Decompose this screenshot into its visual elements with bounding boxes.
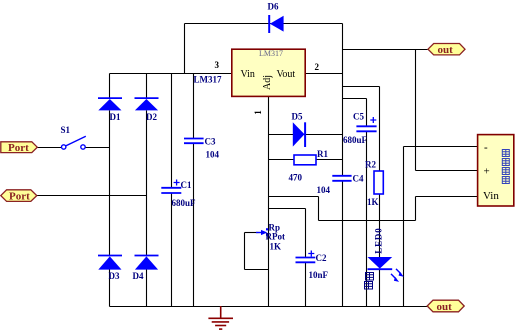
wire C1 vertical top — [171, 74, 173, 188]
wire vertical R2 top — [379, 87, 381, 172]
svg-text:+: + — [484, 166, 490, 178]
svg-text:470: 470 — [289, 172, 303, 182]
diode D5 — [293, 122, 305, 147]
svg-text:1K: 1K — [367, 197, 379, 207]
svg-text:680uF: 680uF — [172, 198, 197, 208]
svg-text:3: 3 — [215, 60, 220, 70]
value label below LED — [365, 273, 374, 290]
potentiometer Rp wiper arrow — [256, 228, 268, 236]
wire bridge right vertical x=146.3 — [146, 74, 148, 99]
svg-text:C3: C3 — [205, 137, 216, 147]
svg-text:D2: D2 — [146, 112, 157, 122]
wire bridge right vertical lower — [146, 270, 148, 307]
wire R1 branch y=160 — [269, 159, 343, 161]
capacitor C1 — [161, 180, 181, 194]
svg-text:Port: Port — [8, 142, 29, 154]
svg-text:out: out — [438, 44, 454, 56]
wire vertical C5 top — [366, 99, 368, 127]
diode D1 — [98, 98, 122, 110]
svg-text:Adj: Adj — [262, 75, 273, 90]
wire vertical R2 bottom to LED anode — [379, 195, 381, 258]
wire potentiometer wiper loop horizontal — [245, 232, 259, 234]
capacitor C3 — [184, 139, 204, 144]
svg-text:Vin: Vin — [483, 190, 499, 202]
wire horizontal y=220.6 — [319, 220, 416, 222]
switch S1 — [62, 136, 86, 149]
svg-text:LM317: LM317 — [194, 75, 222, 85]
svg-text:2: 2 — [315, 62, 320, 72]
svg-text:1: 1 — [253, 110, 263, 115]
svg-text:Port: Port — [9, 190, 30, 202]
wire Adj vertical x=268.8 — [268, 97, 270, 307]
port Port1 — [1, 142, 38, 154]
wire Vin terminal of display module — [416, 196, 478, 198]
svg-text:C2: C2 — [316, 253, 327, 263]
svg-text:10nF: 10nF — [309, 270, 329, 280]
svg-text:D4: D4 — [133, 271, 144, 281]
capacitor C4 — [332, 176, 351, 181]
display module vertical Chinese label — [502, 150, 509, 184]
wire Port2 to bridge node B — [37, 195, 147, 197]
wire plus terminal of display module — [416, 170, 478, 172]
port Port2 — [1, 190, 37, 203]
svg-text:R1: R1 — [317, 149, 328, 159]
wire vertical x=318.1 — [318, 197, 320, 221]
svg-text:D3: D3 — [109, 271, 120, 281]
svg-text:C1: C1 — [181, 180, 192, 190]
wire bridge left vertical x=109.7 — [109, 74, 111, 99]
wire vertical C2 bottom to ground rail — [305, 263, 307, 307]
svg-text:S1: S1 — [61, 125, 71, 135]
wire output to top out connector — [343, 49, 428, 51]
wire C3 vertical top — [193, 74, 195, 139]
svg-text:LED0: LED0 — [374, 227, 384, 253]
wire vertical from top rail down to Vin rail — [184, 24, 186, 74]
port out bottom — [427, 300, 464, 313]
svg-text:R2: R2 — [365, 160, 376, 170]
port out top — [428, 44, 465, 57]
wire C3 vertical bottom to ground rail — [193, 144, 195, 307]
wire Adj branch y=196.4 — [269, 196, 319, 198]
svg-text:-: - — [484, 142, 488, 154]
svg-text:D1: D1 — [110, 112, 121, 122]
wire vertical x=415.2 Vin terminal drop — [415, 197, 417, 221]
wire switch S1 to bridge node A — [86, 147, 110, 149]
wire vertical LED cathode to ground rail — [379, 270, 381, 307]
wire bridge left vertical lower — [109, 270, 111, 307]
resistor R2 — [374, 171, 383, 194]
diode D6 — [269, 15, 283, 33]
svg-text:1K: 1K — [270, 241, 282, 251]
svg-text:D5: D5 — [292, 112, 303, 122]
svg-text:680uF: 680uF — [343, 135, 368, 145]
LED LED0 — [368, 257, 404, 282]
capacitor C5 — [356, 117, 376, 131]
wire bridge left vertical middle — [109, 111, 111, 256]
resistor R1 — [294, 155, 316, 165]
wire potentiometer loop return to Adj net — [245, 269, 269, 271]
svg-text:Vout: Vout — [277, 69, 296, 80]
wire top rail from Vin side to Vout side through D6 — [185, 23, 343, 25]
wire vertical x=403.3 minus terminal down to ground rail — [403, 147, 405, 307]
wire vertical C2 top — [305, 209, 307, 258]
wire Adj branch to C2 y=208.3 — [269, 208, 306, 210]
svg-text:Vin: Vin — [241, 69, 255, 80]
op-amp U1 LM317 regulator box — [232, 49, 305, 96]
svg-text:C4: C4 — [353, 174, 364, 184]
wire vertical x=415.5 from out wire down to plus terminal — [415, 50, 417, 171]
display module box — [478, 135, 514, 206]
svg-text:LM317: LM317 — [259, 49, 283, 58]
svg-text:104: 104 — [206, 150, 220, 160]
wire C1 vertical bottom to ground rail — [171, 194, 173, 307]
svg-text:RPot: RPot — [266, 232, 286, 242]
capacitor C2 — [296, 251, 316, 263]
wire ground rail y=306 — [110, 306, 428, 308]
diode D2 — [135, 98, 159, 110]
wire Port1 to switch S1 — [38, 147, 62, 149]
wire minus terminal of display module — [404, 146, 478, 148]
diode D3 — [98, 256, 122, 270]
wire bridge right vertical middle — [146, 111, 148, 256]
wire C5 branch y=98.3 — [343, 98, 367, 100]
wire vertical Vout net x=342.5 below C4 to ground rail — [342, 182, 344, 307]
wire R2 branch y=86.8 — [343, 86, 380, 88]
svg-text:104: 104 — [317, 185, 331, 195]
wire LM317 pin2 to Vout vertical — [306, 73, 343, 75]
wire Vin rail y=73 — [110, 73, 232, 75]
wire D5 branch y=134 — [269, 134, 343, 136]
svg-text:D6: D6 — [268, 2, 279, 12]
svg-text:C5: C5 — [353, 112, 364, 122]
diode D4 — [135, 256, 159, 270]
wire vertical Vout net x=342.5 upper — [342, 24, 344, 176]
svg-text:out: out — [437, 301, 453, 313]
ground — [208, 306, 233, 329]
wire vertical C5 bottom to ground rail — [366, 132, 368, 307]
wire potentiometer wiper loop vertical — [244, 233, 246, 270]
